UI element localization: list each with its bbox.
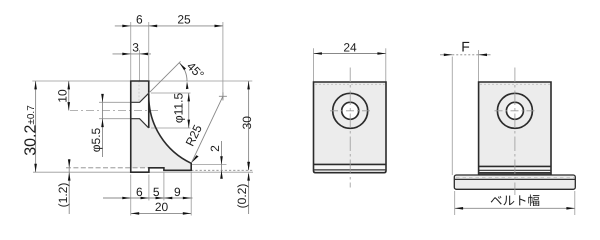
svg-text:(0.2): (0.2) <box>235 184 249 209</box>
svg-text:10: 10 <box>55 89 69 103</box>
svg-text:9: 9 <box>174 185 181 199</box>
svg-text:24: 24 <box>343 40 357 54</box>
svg-text:3: 3 <box>132 41 139 55</box>
svg-text:20: 20 <box>155 200 169 214</box>
svg-text:6: 6 <box>136 13 143 27</box>
svg-text:6: 6 <box>136 185 143 199</box>
svg-text:30: 30 <box>240 116 254 130</box>
svg-text:φ11.5: φ11.5 <box>171 93 185 124</box>
svg-text:ベルト幅: ベルト幅 <box>490 194 540 208</box>
svg-text:5: 5 <box>153 185 160 199</box>
svg-text:φ5.5: φ5.5 <box>89 127 103 152</box>
svg-text:2: 2 <box>208 145 222 152</box>
svg-text:F: F <box>461 38 470 54</box>
svg-text:(1.2): (1.2) <box>56 183 70 208</box>
svg-text:25: 25 <box>177 13 191 27</box>
